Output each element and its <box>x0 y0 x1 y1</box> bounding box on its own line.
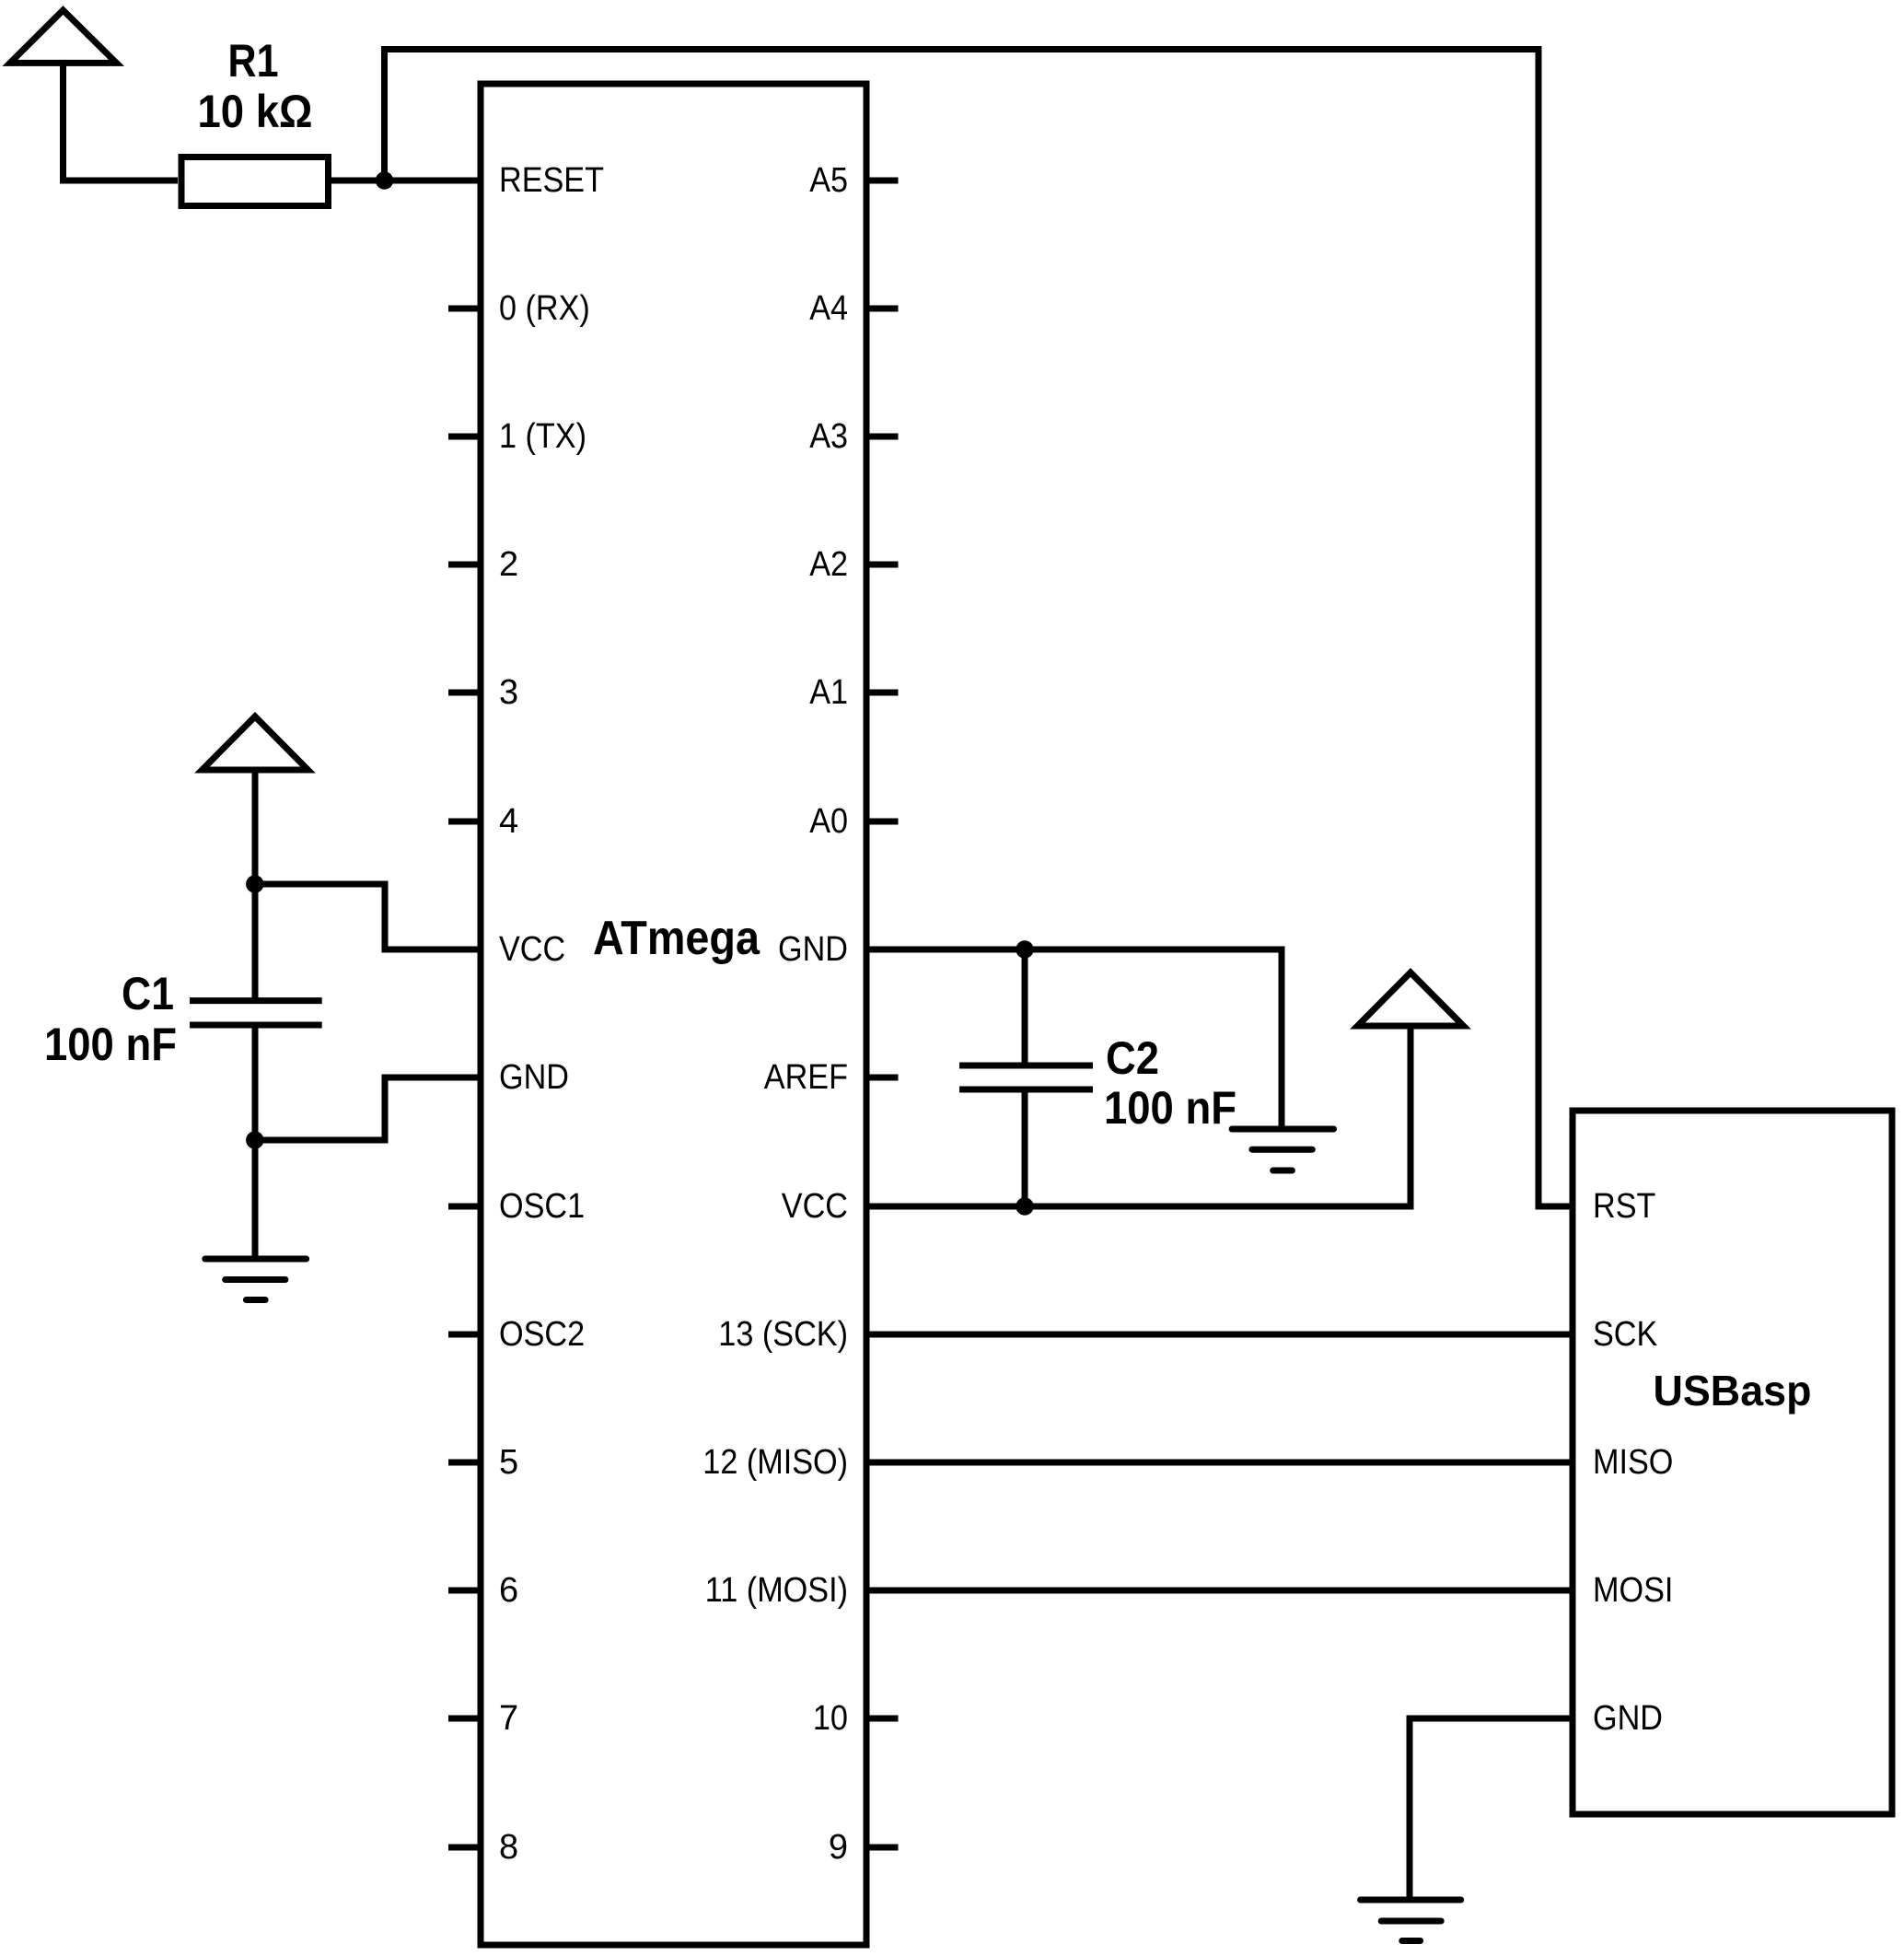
pin A5 <box>866 178 899 184</box>
wire C1 junction to VCC pin <box>255 884 481 949</box>
svg-text:10 kΩ: 10 kΩ <box>198 86 313 137</box>
svg-text:2: 2 <box>499 545 518 584</box>
wire C1 junction to GND pin <box>255 1077 481 1140</box>
wire GND pin (right) to ground <box>866 949 1282 1129</box>
wire power symbol to C1 top plate <box>252 770 259 1001</box>
svg-text:VCC: VCC <box>782 1187 848 1226</box>
wire C2 top <box>1022 949 1028 1065</box>
pin AREF <box>866 1075 899 1081</box>
svg-text:GND: GND <box>499 1058 569 1097</box>
pin 3 <box>448 690 481 696</box>
svg-text:C1: C1 <box>122 968 174 1019</box>
node RESET junction <box>376 171 393 189</box>
svg-text:R1: R1 <box>228 35 279 87</box>
svg-text:GND: GND <box>1593 1699 1663 1738</box>
pin 4 <box>448 819 481 825</box>
wire C1 bottom plate to ground <box>252 1025 259 1259</box>
svg-text:9: 9 <box>829 1828 848 1867</box>
wire VCC pin (right) to power symbol <box>866 1026 1411 1206</box>
svg-text:GND: GND <box>778 930 848 969</box>
pin 5 <box>448 1460 481 1466</box>
wire 12 (MISO) to MISO <box>866 1460 1573 1466</box>
svg-text:12 (MISO): 12 (MISO) <box>702 1443 848 1482</box>
wire 13 (SCK) to SCK <box>866 1332 1573 1338</box>
pin 7 <box>448 1716 481 1722</box>
IC U2 USBasp body <box>1573 1111 1892 1814</box>
pin A1 <box>866 690 899 696</box>
pin 8 <box>448 1845 481 1851</box>
svg-text:10: 10 <box>813 1699 848 1738</box>
svg-text:8: 8 <box>499 1828 518 1867</box>
svg-text:7: 7 <box>499 1699 518 1738</box>
svg-text:MISO: MISO <box>1593 1443 1673 1482</box>
pin 10 <box>866 1716 899 1722</box>
svg-text:A1: A1 <box>809 673 848 712</box>
svg-text:1 (TX): 1 (TX) <box>499 417 586 456</box>
pin 0 (RX) <box>448 306 481 312</box>
power symbol (top-left, feeds R1) <box>10 10 117 63</box>
svg-text:100 nF: 100 nF <box>44 1019 177 1070</box>
pin 2 <box>448 562 481 568</box>
resistor R1 <box>181 157 329 206</box>
wire power symbol to R1 <box>64 63 179 180</box>
ground (below GND right wire) <box>1232 1126 1333 1133</box>
svg-text:RESET: RESET <box>499 161 604 200</box>
node C2 bottom junction <box>1016 1197 1033 1215</box>
pin 1 (TX) <box>448 434 481 440</box>
node C1 GND junction <box>246 1131 263 1148</box>
svg-text:ATmega: ATmega <box>593 912 760 965</box>
pin 6 <box>448 1588 481 1594</box>
node C2 top junction <box>1016 940 1033 958</box>
ground (below USBasp) <box>1361 1897 1461 1904</box>
ground (below C1) <box>205 1256 307 1263</box>
wire 11 (MOSI) to MOSI <box>866 1588 1573 1594</box>
svg-text:100 nF: 100 nF <box>1104 1082 1236 1134</box>
svg-text:11 (MOSI): 11 (MOSI) <box>705 1571 848 1610</box>
svg-text:A4: A4 <box>809 289 848 328</box>
svg-text:A0: A0 <box>809 802 848 841</box>
pin A4 <box>866 306 899 312</box>
svg-text:RST: RST <box>1593 1187 1655 1226</box>
wire RESET junction to USBasp RST <box>385 50 1573 1207</box>
svg-text:4: 4 <box>499 802 518 841</box>
svg-text:13 (SCK): 13 (SCK) <box>718 1315 848 1354</box>
IC U1 ATmega body <box>481 84 866 1945</box>
power symbol (above C1) <box>203 716 308 770</box>
wire USBasp GND to ground <box>1410 1718 1573 1900</box>
pin 9 <box>866 1845 899 1851</box>
wire R1 to RESET pin <box>331 178 481 184</box>
pin A0 <box>866 819 899 825</box>
svg-text:6: 6 <box>499 1571 518 1610</box>
svg-text:C2: C2 <box>1106 1032 1159 1084</box>
capacitor C1 <box>190 997 322 1004</box>
svg-text:SCK: SCK <box>1593 1315 1657 1354</box>
pin A3 <box>866 434 899 440</box>
svg-text:3: 3 <box>499 673 518 712</box>
svg-text:USBasp: USBasp <box>1654 1367 1812 1415</box>
svg-text:VCC: VCC <box>499 930 565 969</box>
svg-text:A5: A5 <box>809 161 848 200</box>
wire C2 bottom <box>1022 1089 1028 1206</box>
node C1 VCC junction <box>246 875 263 892</box>
capacitor C2 <box>959 1063 1093 1069</box>
svg-text:5: 5 <box>499 1443 518 1482</box>
svg-text:OSC2: OSC2 <box>499 1315 585 1354</box>
power symbol (right, feeds VCC) <box>1358 972 1464 1026</box>
svg-text:0 (RX): 0 (RX) <box>499 289 590 328</box>
pin OSC1 <box>448 1204 481 1210</box>
svg-text:A2: A2 <box>809 545 848 584</box>
pin A2 <box>866 562 899 568</box>
svg-text:AREF: AREF <box>764 1058 848 1097</box>
pin OSC2 <box>448 1332 481 1338</box>
svg-text:OSC1: OSC1 <box>499 1187 585 1226</box>
svg-text:MOSI: MOSI <box>1593 1571 1673 1610</box>
svg-text:A3: A3 <box>809 417 848 456</box>
